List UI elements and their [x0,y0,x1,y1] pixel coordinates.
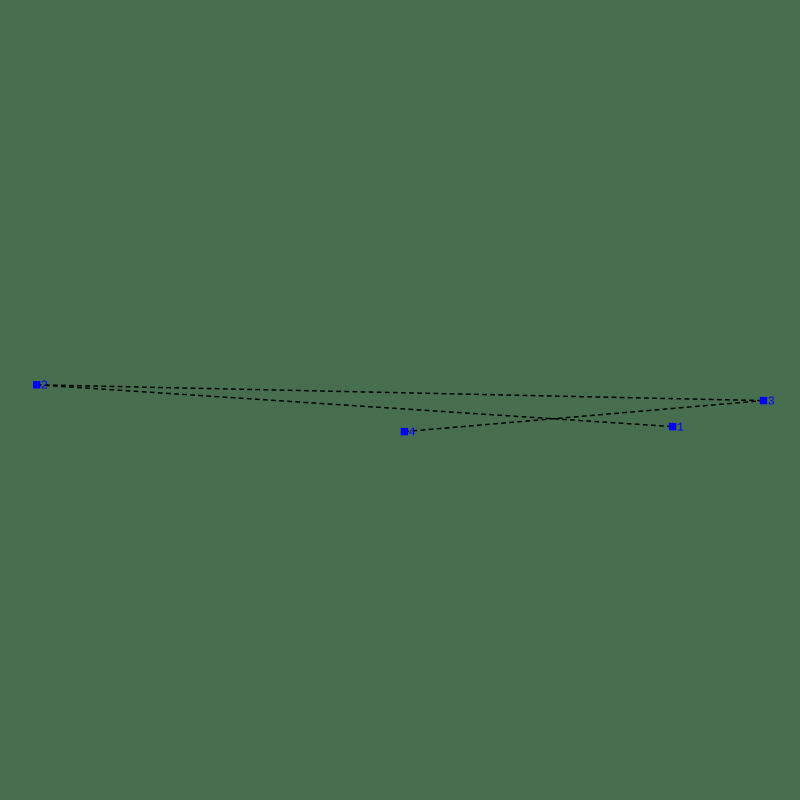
svg-text:2: 2 [41,379,48,393]
node 4 [401,428,408,435]
wire edge 4-3 [404,401,763,432]
svg-text:3: 3 [768,394,775,408]
node 1 [669,423,676,430]
svg-text:1: 1 [677,420,684,434]
node 2 [33,381,40,388]
wire edge 2-3 [37,385,764,401]
wire edge 2-1 [37,385,673,427]
node 3 [760,397,767,404]
svg-text:4: 4 [409,425,416,439]
